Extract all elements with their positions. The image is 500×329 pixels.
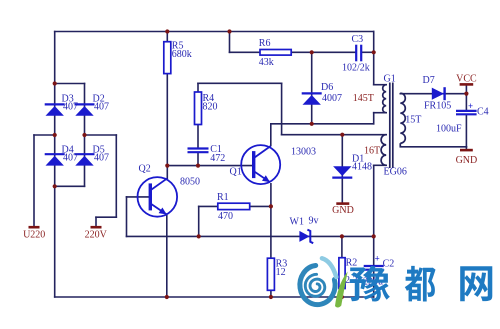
svg-text:FR105: FR105 xyxy=(424,101,451,112)
svg-text:407: 407 xyxy=(94,153,109,164)
svg-text:4148: 4148 xyxy=(352,162,372,173)
svg-text:EG06: EG06 xyxy=(384,167,407,178)
svg-text:GND: GND xyxy=(332,205,354,216)
svg-text:C4: C4 xyxy=(477,107,489,118)
svg-text:R6: R6 xyxy=(259,38,271,49)
svg-text:VCC: VCC xyxy=(456,74,477,85)
svg-text:+: + xyxy=(375,253,380,263)
svg-text:145T: 145T xyxy=(353,93,374,104)
svg-text:220V: 220V xyxy=(85,230,108,241)
svg-text:100uF: 100uF xyxy=(436,123,462,134)
svg-text:16T: 16T xyxy=(364,146,380,157)
svg-text:407: 407 xyxy=(94,102,109,113)
svg-text:D6: D6 xyxy=(321,82,333,93)
svg-text:C3: C3 xyxy=(352,34,364,45)
svg-text:W1: W1 xyxy=(290,217,304,228)
svg-text:102/2k: 102/2k xyxy=(342,63,370,74)
svg-text:C2: C2 xyxy=(383,258,395,269)
svg-text:9v: 9v xyxy=(309,216,319,227)
svg-text:D7: D7 xyxy=(423,75,435,86)
svg-text:G1: G1 xyxy=(384,74,396,85)
svg-text:472: 472 xyxy=(210,153,225,164)
svg-text:4007: 4007 xyxy=(322,93,342,104)
svg-text:13003: 13003 xyxy=(291,147,316,158)
svg-text:Q2: Q2 xyxy=(139,163,151,174)
svg-text:GND: GND xyxy=(456,155,478,166)
svg-text:15T: 15T xyxy=(405,115,421,126)
svg-text:R1: R1 xyxy=(217,192,229,203)
svg-text:R2: R2 xyxy=(346,258,358,269)
svg-text:820: 820 xyxy=(203,102,218,113)
svg-text:12: 12 xyxy=(276,267,286,278)
svg-text:+: + xyxy=(468,101,473,111)
svg-text:43k: 43k xyxy=(259,57,274,68)
svg-text:407: 407 xyxy=(63,102,78,113)
svg-text:407: 407 xyxy=(63,153,78,164)
svg-text:470: 470 xyxy=(218,211,233,222)
svg-text:Q1: Q1 xyxy=(230,166,242,177)
svg-text:U220: U220 xyxy=(23,230,45,241)
svg-text:680k: 680k xyxy=(172,49,192,60)
svg-text:8050: 8050 xyxy=(180,176,200,187)
